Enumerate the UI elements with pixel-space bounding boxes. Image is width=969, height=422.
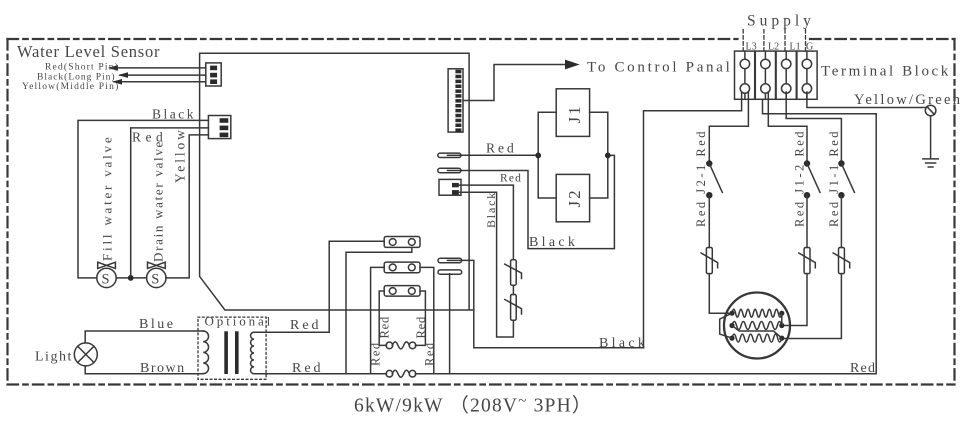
wire black from thermal fuses [459,192,514,337]
wire to control panel [463,60,580,101]
relay J2 coil [386,370,416,377]
contact J1-2 [804,160,820,198]
svg-text:L2: L2 [768,41,779,52]
wire L1 to contact J1-1 [786,92,841,162]
svg-text:S: S [151,271,159,287]
wire J1 J2 left rail [538,112,556,198]
wire red bottom to supply L2 [415,99,876,373]
transformer T1 secondary [251,332,254,374]
svg-text:Red J2-1 Red: Red J2-1 Red [694,129,708,227]
svg-text:Optional: Optional [205,314,274,329]
svg-text:Black: Black [152,107,196,122]
contact J2-1 [706,160,722,198]
svg-text:Brown: Brown [140,361,186,376]
wire red to thermal fuses [459,185,514,260]
transformer T1 primary [203,331,208,374]
wire contact KA to bottom red wire [346,247,412,373]
series link [732,326,782,339]
svg-text:Red: Red [369,341,383,366]
wire black to relay rails [461,155,614,248]
terminal block TB1 [735,51,818,99]
svg-text:Yellow/Green: Yellow/Green [854,92,962,108]
wire spade F4 to bottom red wire [449,274,451,374]
element 2 [732,322,782,330]
svg-text:Supply: Supply [747,13,815,30]
junction right rail [605,153,611,159]
wire FR3 to heater [782,274,841,339]
wire brown [85,366,203,374]
wire red valve common [131,128,209,276]
ground symbol [923,159,938,167]
relay J1 frame left [379,291,386,345]
spade terminal F1 [438,153,461,157]
svg-text:Black: Black [599,336,648,351]
wire J2-1 to fuse [708,195,710,247]
wire sensor red [108,65,206,71]
svg-text:To Control Panal: To Control Panal [587,60,732,76]
thermal fuse FU2 [505,295,522,321]
svg-text:Black: Black [529,235,578,250]
svg-text:Red: Red [850,361,876,376]
svg-text:Drain water valve: Drain water valve [151,140,166,262]
wire red secondary top to relay contact KA [254,241,384,332]
svg-text:Red: Red [500,172,522,184]
wire red secondary bottom [254,373,387,375]
fuse FR1 [701,248,718,274]
relay contact KB terminals [384,262,420,273]
svg-text:J1: J1 [565,104,584,123]
connector CN2 valves [208,116,230,139]
wire yellow to drain valve [166,135,209,278]
supply dashed leads [743,30,805,51]
svg-text:L1: L1 [790,41,801,52]
svg-text:Fill water valve: Fill water valve [100,135,115,261]
svg-text:Red: Red [423,341,437,366]
wire sensor black [118,72,206,78]
wire between valves [116,277,146,279]
left bracket link [720,313,732,338]
relay J1 frame right [415,291,425,345]
connector CN3 pins [455,70,461,132]
wire earth [930,116,932,159]
earth terminal [925,105,936,116]
spade terminal F2 [438,168,461,172]
fuse FR2 [799,248,816,274]
fill valve V1 [97,262,116,287]
wire L3 to heater common [644,92,742,348]
relay J1 coil [386,342,416,349]
connector CN4 thermal sensor [439,179,461,195]
fuse FR3 [833,248,850,274]
svg-text:Red J1-2 Red: Red J1-2 Red [793,129,807,227]
connector CN1 water level sensor [206,63,221,86]
main control board box [200,53,474,310]
wire black to fill valve [78,120,208,278]
wire FR2 to heater [782,274,807,326]
wire L2 to contact J1-2 [768,92,807,162]
svg-text:Red: Red [290,318,322,333]
wire J1-2 to fuse [806,195,808,247]
optional box outline [198,317,266,379]
wire J1 J2 right rail [590,112,608,198]
thermal fuse FU1 [505,260,522,295]
wire blue [85,331,203,343]
svg-text:Red J1-1 Red: Red J1-1 Red [827,129,841,227]
connector CN3 control panel 13pin [448,69,463,132]
svg-text:Yellow: Yellow [173,127,188,183]
element 1 [732,309,782,317]
junction valve common [128,275,134,281]
svg-text:Black: Black [484,191,498,228]
wire sensor yellow [112,79,206,85]
wire L3 to contact J2-1 [709,92,748,162]
lamp L1 [74,343,97,366]
relay J2 frame right [420,267,434,373]
spade terminal F4 [438,270,462,274]
svg-text:Light: Light [35,350,73,365]
svg-text:L3: L3 [746,41,757,52]
svg-text:6kW/9kW （208V~ 3PH）: 6kW/9kW （208V~ 3PH） [354,394,593,417]
relay J2 frame left [371,267,385,373]
relay coil J2 box [556,174,589,221]
heater EH1 [720,293,790,359]
relay contact KA terminals [384,237,420,248]
wire red to relay rails [461,154,538,156]
wire J1-1 to fuse [840,195,842,247]
svg-text:Red(Short Pin): Red(Short Pin) [45,62,119,73]
svg-text:Red: Red [486,141,517,156]
contact J1-1 [838,160,854,198]
svg-text:Black(Long Pin): Black(Long Pin) [37,71,116,82]
svg-text:Blue: Blue [139,317,175,332]
wire G to earth [807,92,925,108]
svg-text:Terminal Block: Terminal Block [821,63,951,79]
wire black to heater common [462,260,644,347]
svg-text:J2: J2 [565,188,584,207]
svg-text:Red: Red [414,316,428,339]
svg-text:Red: Red [378,316,392,339]
junction left rail [535,153,541,159]
svg-text:Yellow(Middle Pin): Yellow(Middle Pin) [22,81,119,92]
element end dots [729,311,784,341]
svg-text:S: S [102,271,110,287]
svg-text:Water Level Sensor: Water Level Sensor [17,42,160,61]
right bridge link [781,313,783,325]
relay coil J1 box [556,89,589,137]
transformer core [224,331,228,374]
relay contact KC terminals [384,286,420,297]
drain valve V2 [147,262,166,287]
svg-text:Red: Red [292,361,324,376]
element 3 [732,334,782,342]
spade terminal F3 [438,258,462,262]
wire FR1 to heater [709,274,729,314]
svg-text:G: G [806,41,813,52]
